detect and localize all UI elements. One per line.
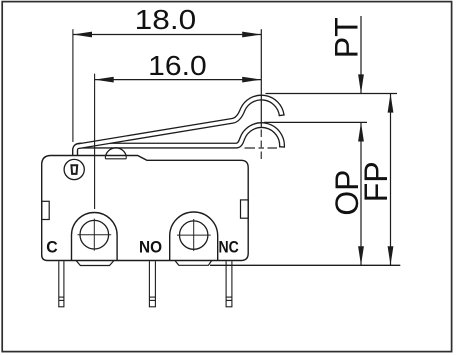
FP level extension line [266, 93, 398, 95]
plunger right wall [125, 155, 127, 159]
right side tab [241, 200, 249, 218]
right mounting boss [170, 212, 218, 260]
right hole crosshair [177, 234, 211, 236]
left side tab [42, 201, 50, 219]
PT dimension line [360, 16, 362, 94]
left mounting boss [72, 213, 118, 261]
pin NO [149, 261, 156, 307]
FP top arrow [388, 94, 394, 113]
centerline cross horizontal [245, 147, 278, 149]
OP level extension line [264, 121, 367, 123]
plunger recess floor [105, 158, 126, 160]
bottom seating extension line [210, 264, 400, 266]
PT arrow [358, 74, 364, 93]
FP dimension line [390, 94, 392, 266]
centerline continuation [260, 130, 262, 160]
left boss foot [76, 261, 114, 266]
18.0 right arrow [242, 32, 261, 38]
OP bottom arrow [358, 246, 364, 265]
dimension 16.0 line [95, 79, 262, 81]
svg-text:16.0: 16.0 [148, 50, 207, 81]
18.0 left arrow [73, 32, 92, 38]
pin C [58, 261, 64, 307]
svg-text:PT: PT [329, 17, 365, 58]
pivot slot [71, 165, 77, 174]
16.0 right arrow [242, 77, 261, 83]
OP top arrow [358, 122, 364, 141]
svg-text:NC: NC [219, 238, 239, 257]
plunger dome [106, 148, 126, 155]
svg-text:NO: NO [139, 238, 162, 257]
left hole crosshair [78, 234, 112, 236]
svg-text:FP: FP [358, 161, 394, 202]
extension line (16.0 / hole center) [94, 74, 96, 209]
pin NC [226, 261, 233, 307]
plunger left wall [104, 155, 106, 159]
extension line right (lever tip center) [260, 29, 262, 128]
lever free position [75, 98, 285, 156]
svg-text:C: C [46, 238, 57, 257]
lever operating position (pressed) [75, 125, 285, 155]
right boss foot [175, 261, 212, 266]
OP dimension line [360, 122, 362, 265]
right hole [180, 221, 208, 249]
dimension 18.0 line [73, 34, 261, 36]
pivot hole circle [64, 159, 84, 179]
left hole [80, 220, 109, 249]
FP bottom arrow [388, 246, 394, 265]
switch body outline [42, 156, 249, 261]
extension line left (18.0) [72, 29, 74, 142]
16.0 left arrow [95, 77, 114, 83]
svg-text:18.0: 18.0 [135, 4, 197, 35]
